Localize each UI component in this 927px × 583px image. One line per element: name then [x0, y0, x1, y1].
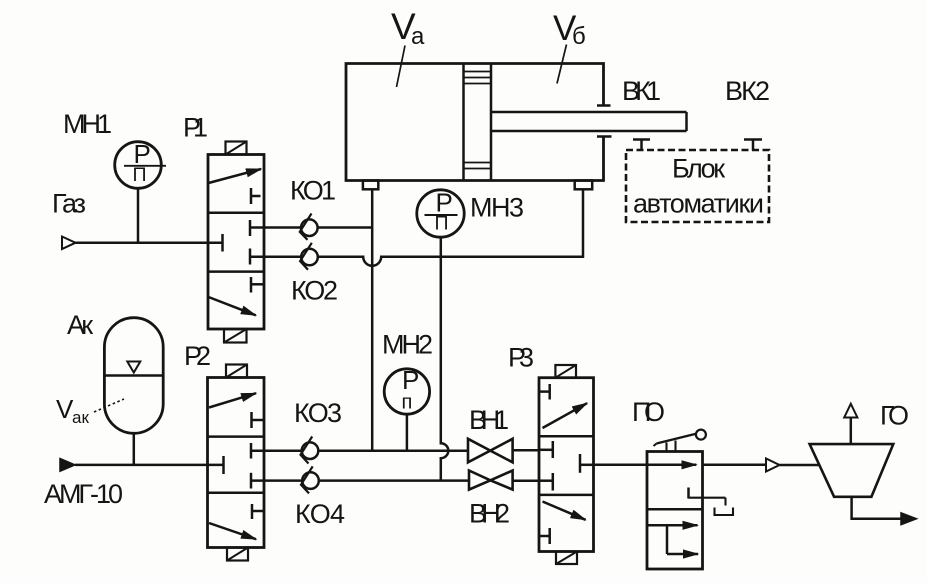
label P2 — [184, 341, 211, 371]
label Va — [391, 6, 425, 50]
wire from left port down to KO3 line — [371, 189, 374, 450]
shut-off valve BH1 — [468, 439, 539, 463]
svg-text:Ак: Ак — [67, 310, 93, 340]
svg-text:КО4: КО4 — [295, 499, 345, 529]
wire GO outlet — [852, 497, 917, 525]
svg-text:Р1: Р1 — [183, 113, 208, 143]
svg-text:п: п — [402, 392, 413, 414]
switch tick BK2 — [744, 140, 762, 151]
svg-text:ВН2: ВН2 — [469, 499, 510, 529]
gauge MH2 — [384, 369, 429, 414]
svg-text:П: П — [435, 213, 449, 235]
shut-off valve BH2 — [469, 471, 539, 490]
svg-text:МН2: МН2 — [382, 330, 433, 360]
hydraulic tank GO — [810, 404, 894, 497]
svg-text:Р3: Р3 — [508, 343, 534, 373]
svg-text:Газ: Газ — [52, 189, 86, 219]
svg-text:ПО: ПО — [632, 397, 665, 427]
check valve KO4 — [251, 466, 469, 493]
svg-text:а: а — [411, 23, 425, 50]
valve P3 — [539, 378, 594, 552]
label BK2 — [725, 76, 770, 106]
piston rod — [491, 106, 687, 137]
wire gas line — [76, 241, 223, 244]
svg-text:ВН1: ВН1 — [469, 405, 509, 435]
wire accumulator stem — [133, 433, 136, 465]
svg-text:ВК1: ВК1 — [622, 76, 661, 106]
port boss left (node to Va) — [363, 181, 378, 190]
label BK1 — [622, 76, 661, 106]
svg-text:КО1: КО1 — [290, 176, 336, 206]
automation block (dashed box) — [626, 150, 769, 222]
svg-text:КО2: КО2 — [291, 276, 338, 306]
check valve KO2 + wire to right port — [250, 189, 583, 269]
check valve KO1 — [250, 214, 372, 240]
gauge MH3 — [417, 190, 464, 237]
svg-text:автоматики: автоматики — [633, 189, 764, 219]
label P1 — [183, 113, 208, 143]
cylinder body — [346, 64, 604, 181]
solenoid P3 top — [555, 365, 576, 378]
leader line Va — [397, 46, 406, 88]
svg-text:АМГ-10: АМГ-10 — [44, 479, 123, 509]
check valve KO3 — [251, 437, 468, 464]
svg-text:б: б — [572, 23, 586, 50]
label P3 — [508, 343, 534, 373]
leader line Vak (dotted) — [94, 399, 124, 412]
solenoid P1 bottom — [224, 329, 247, 343]
wire MH2 stem — [406, 414, 409, 451]
wire P3 to PO — [594, 464, 648, 467]
label Gaz — [52, 189, 86, 219]
valve P1 — [208, 155, 264, 330]
wire MH1 stem — [137, 189, 140, 243]
AMG-10 inlet arrow — [60, 459, 75, 472]
wire PO to GO with open arrow — [703, 459, 819, 472]
gauge MH1 — [115, 142, 166, 189]
svg-text:ВК2: ВК2 — [725, 76, 770, 106]
svg-text:ак: ак — [72, 408, 89, 427]
wire AMG line — [75, 464, 224, 467]
svg-text:Блок: Блок — [672, 154, 725, 184]
svg-text:П: П — [133, 164, 147, 186]
piston — [464, 64, 492, 181]
port boss right (node to Vb) — [575, 181, 593, 190]
svg-text:КО3: КО3 — [294, 398, 342, 428]
solenoid P2 top — [226, 365, 247, 378]
solenoid P1 top — [226, 142, 247, 155]
leader line Vb — [557, 45, 567, 84]
label Vb — [553, 9, 586, 50]
solenoid P3 bottom — [556, 552, 577, 565]
svg-text:МН3: МН3 — [470, 193, 524, 223]
PO exhaust bracket — [715, 508, 734, 516]
valve P2 — [208, 378, 265, 548]
svg-text:Р2: Р2 — [184, 341, 211, 371]
svg-text:Р: Р — [402, 365, 419, 395]
accumulator Ak — [104, 318, 163, 434]
svg-text:ГО: ГО — [880, 401, 909, 431]
switch tick BK1 — [633, 140, 650, 151]
lock PO — [647, 452, 726, 570]
svg-text:МН1: МН1 — [63, 109, 112, 139]
solenoid P2 bottom — [227, 548, 248, 561]
PO lever — [654, 430, 706, 452]
wire MH3 stem with hop over KO3 line — [441, 237, 449, 481]
gas inlet arrow — [62, 237, 76, 250]
